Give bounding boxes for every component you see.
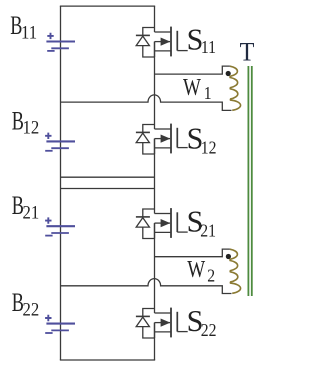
drain lead (155, 128, 171, 130)
body diode cathode bar (136, 34, 150, 36)
label B21 (12, 191, 39, 223)
svg-text:T: T (240, 39, 255, 67)
minus sign (47, 50, 54, 52)
body diode top lead (143, 28, 155, 36)
negative (short) plate (51, 232, 69, 234)
winding W2 coil (230, 249, 241, 293)
source arrow line (155, 322, 171, 324)
winding W1 top lead wire (155, 66, 230, 74)
body diode triangle (136, 133, 149, 143)
source contact lead (155, 331, 172, 333)
body diode bottom lead (143, 227, 155, 238)
gate lead (177, 50, 187, 52)
source contact lead (155, 147, 172, 149)
drain lead (155, 312, 171, 314)
source arrowhead (161, 135, 171, 143)
svg-text:W: W (187, 256, 205, 283)
svg-text:11: 11 (201, 37, 216, 57)
source arrow line (155, 41, 171, 43)
body diode cathode bar (136, 131, 150, 133)
positive (long) plate (46, 225, 75, 227)
label S12 (187, 121, 217, 158)
source-side column jog (154, 139, 156, 154)
label B12 (12, 106, 39, 138)
gate lead (177, 331, 187, 333)
svg-text:12: 12 (201, 138, 217, 158)
transformer core line right (251, 66, 253, 296)
body diode bottom lead (143, 46, 155, 57)
transformer core line left (247, 66, 249, 296)
source arrowhead (161, 219, 171, 227)
source contact lead (155, 231, 172, 233)
body diode cathode bar (136, 315, 150, 317)
positive (long) plate (46, 140, 75, 142)
label S21 (187, 204, 216, 241)
body diode top lead (143, 309, 155, 317)
gate lead (177, 147, 187, 149)
body diode bottom lead (143, 143, 155, 154)
source-side column jog (154, 42, 156, 57)
label S11 (187, 22, 216, 57)
winding W2 bottom lead wire with hop over switch column (61, 279, 232, 294)
gate lead (177, 231, 187, 233)
drain lead (155, 213, 171, 215)
plus sign (47, 33, 53, 39)
minus sign (45, 150, 52, 152)
bottom rail wire (60, 359, 155, 361)
gate bar (176, 128, 178, 148)
svg-text:1: 1 (204, 83, 212, 103)
svg-text:21: 21 (23, 201, 40, 222)
body diode cathode bar (136, 216, 150, 218)
source arrow line (155, 138, 171, 140)
negative (short) plate (51, 47, 69, 49)
winding W1 bottom lead wire with hop over switch column (61, 95, 232, 111)
body diode triangle (136, 36, 149, 46)
body diode triangle (136, 218, 149, 228)
plus sign (45, 217, 51, 223)
gate bar (176, 31, 178, 51)
source-side column jog (154, 323, 156, 338)
svg-text:22: 22 (23, 298, 40, 319)
label W1 (183, 74, 212, 103)
gate bar (176, 312, 178, 332)
transistor S12 (MOSFET with body diode) (136, 124, 188, 154)
switch column wire: top rail to S11 drain (154, 6, 156, 32)
svg-text:2: 2 (207, 266, 215, 286)
transistor S11 (MOSFET with body diode) (136, 27, 188, 57)
channel bar (170, 124, 172, 154)
switch column wire: S11 source to S12 drain (154, 42, 156, 129)
switch column wire: S22 source to bottom rail (154, 323, 156, 360)
body diode bottom lead (143, 327, 155, 338)
left battery-stack column wire (60, 6, 62, 360)
body diode triangle (136, 317, 149, 327)
positive (long) plate (46, 40, 75, 42)
switch column wire: S21 source to S22 drain (154, 223, 156, 313)
drain lead (155, 31, 171, 33)
battery B22 (45, 315, 75, 333)
battery B21 (45, 217, 75, 235)
module link wire upper (61, 176, 155, 178)
svg-text:12: 12 (23, 117, 40, 138)
winding W1 coil (230, 66, 241, 110)
source arrow line (155, 222, 171, 224)
source arrowhead (161, 319, 171, 327)
winding W2 top lead wire (155, 249, 230, 257)
switch column wire: S12 source to S21 drain (154, 139, 156, 214)
winding W1 polarity dot (226, 71, 231, 76)
battery B11 (46, 33, 75, 51)
transistor S21 (MOSFET with body diode) (136, 208, 188, 238)
svg-text:21: 21 (200, 221, 216, 241)
channel bar (170, 308, 172, 338)
label B22 (12, 288, 39, 320)
channel bar (170, 208, 172, 238)
plus sign (45, 133, 51, 139)
negative (short) plate (51, 329, 69, 331)
positive (long) plate (46, 323, 75, 325)
source arrowhead (161, 38, 171, 46)
minus sign (45, 235, 52, 237)
body diode top lead (143, 209, 155, 217)
label S22 (187, 304, 217, 341)
module link wire lower (61, 188, 155, 190)
svg-text:11: 11 (21, 22, 37, 43)
svg-text:22: 22 (201, 320, 217, 340)
plus sign (45, 315, 51, 321)
svg-text:W: W (183, 74, 201, 101)
body diode top lead (143, 125, 155, 133)
minus sign (45, 332, 52, 334)
channel bar (170, 27, 172, 57)
label B11 (10, 11, 37, 43)
label W2 (187, 256, 215, 286)
source contact lead (155, 50, 172, 52)
battery B12 (45, 133, 75, 151)
winding W2 polarity dot (226, 254, 231, 259)
source-side column jog (154, 223, 156, 238)
negative (short) plate (51, 147, 69, 149)
transistor S22 (MOSFET with body diode) (136, 308, 188, 338)
gate bar (176, 212, 178, 232)
top rail wire (60, 5, 155, 7)
